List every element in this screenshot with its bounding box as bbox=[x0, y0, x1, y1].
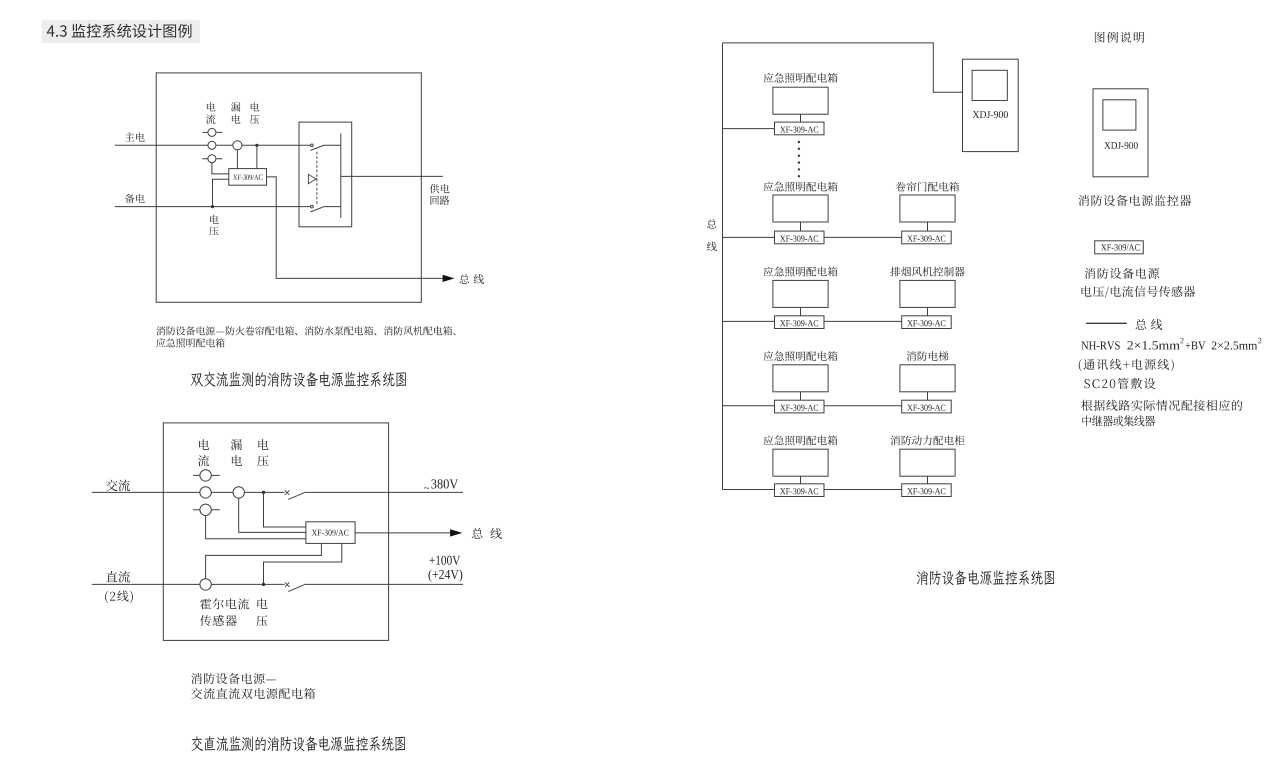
sensor box XF1 bbox=[229, 169, 267, 186]
sensor box XF-309-AC A row1 bbox=[775, 122, 825, 135]
wire bus to XF A row5 bbox=[723, 489, 775, 491]
wire bus vertical bbox=[722, 43, 724, 490]
node junction on 备电 bbox=[211, 205, 214, 208]
legend label 总 线 bbox=[1136, 319, 1147, 330]
label 总 线 diagram2 bbox=[472, 528, 483, 539]
panel box B row4 bbox=[900, 365, 955, 392]
wire 直流 line right bbox=[305, 583, 463, 585]
wire tick top d2 bbox=[193, 474, 220, 476]
label +100V bbox=[430, 556, 461, 565]
wire XF1 to 备电 bbox=[213, 179, 229, 206]
label 压 d2v bbox=[256, 615, 267, 626]
sensor box XF-309-AC A row3 bbox=[775, 316, 825, 329]
label XF-309-AC A row4 bbox=[780, 405, 818, 411]
label 排烟风机控制器 row3 bbox=[890, 267, 964, 277]
caption diagram1 line1 bbox=[156, 326, 455, 335]
label XDJ-900 middle bbox=[973, 111, 1008, 118]
wire 直流 line left bbox=[92, 583, 285, 585]
switch blade backup bbox=[311, 207, 324, 212]
wire node to XF1 bbox=[256, 145, 258, 168]
arrow bus output d2 bbox=[450, 529, 462, 536]
wire XF1 to bus bbox=[267, 177, 444, 279]
legend sensor box bbox=[1095, 241, 1144, 254]
label XF-309/AC on XF1 bbox=[233, 175, 262, 180]
sensor box XF-309-AC B row4 bbox=[902, 400, 952, 413]
sensor box XF2 bbox=[306, 522, 355, 544]
wire bus to XF A row2 bbox=[723, 236, 775, 238]
label 交流 bbox=[106, 480, 130, 492]
sensor CT1 d2 bbox=[200, 470, 211, 481]
label 总 线 diagram1 bbox=[459, 274, 469, 284]
wire boxA-XF row5 bbox=[800, 476, 802, 484]
sensor CT2 current bbox=[208, 141, 216, 149]
sensor box XF-309-AC B row2 bbox=[902, 231, 952, 244]
sensor CT1 current bbox=[208, 128, 216, 136]
wire XF2 to DC node bbox=[264, 543, 342, 584]
switch cross DC bbox=[285, 582, 290, 587]
wire XF A to XF B row4 bbox=[824, 405, 902, 407]
legend heading 图例说明 bbox=[1095, 32, 1144, 43]
label 电压 d2col3 bbox=[258, 439, 268, 450]
wire boxA-XF row2 bbox=[800, 222, 802, 231]
wire XF2 to bus bbox=[355, 532, 450, 534]
label XF-309-AC B row5 bbox=[907, 488, 945, 494]
switch blade AC bbox=[288, 493, 304, 500]
wire output bar bbox=[340, 133, 342, 218]
sensor leakage d2 bbox=[233, 487, 244, 498]
legend monitor box bbox=[1093, 89, 1148, 177]
label 线 vertical bbox=[707, 242, 717, 252]
caption diagram1 title bbox=[191, 372, 407, 387]
wire CT3 to XF1 bbox=[212, 163, 229, 174]
wire 交流 line left bbox=[92, 491, 285, 493]
panel box A row5 bbox=[773, 449, 828, 476]
label XF-309-AC B row2 bbox=[907, 236, 945, 242]
contact circle backup bbox=[311, 205, 314, 208]
legend text (通讯线+电源线) bbox=[1079, 359, 1174, 372]
caption diagram1 line2 bbox=[156, 338, 225, 347]
panel box A row4 bbox=[773, 365, 828, 392]
label 回路 bbox=[431, 196, 450, 205]
wire leakage to XF1 bbox=[236, 150, 238, 169]
sensor CT3 d2 bbox=[200, 504, 211, 515]
switch cross AC bbox=[285, 490, 290, 495]
node junction AC bbox=[262, 491, 265, 494]
legend text 消防设备电源 bbox=[1085, 268, 1160, 279]
label 电流 column1 bbox=[207, 102, 216, 111]
wire node to XF2 bbox=[264, 492, 306, 527]
label 应急照明配电箱 row4 bbox=[764, 351, 838, 361]
label 直流 bbox=[106, 571, 130, 583]
label 供电 bbox=[430, 184, 450, 193]
label 应急照明配电箱 row1 bbox=[764, 73, 838, 83]
wire boxB-XF row3 bbox=[927, 307, 929, 315]
legend monitor screen bbox=[1103, 100, 1136, 130]
section title background bbox=[42, 20, 200, 43]
label 应急照明配电箱 row2 bbox=[764, 182, 838, 192]
sensor CT2 d2 bbox=[200, 487, 211, 498]
label 备电 bbox=[125, 194, 145, 203]
sensor box XF-309-AC B row5 bbox=[902, 484, 952, 497]
wire bus to XF A row1 bbox=[723, 128, 775, 130]
label XF-309-AC B row3 bbox=[907, 320, 945, 326]
label 漏电 d2col2 bbox=[231, 439, 242, 450]
label (+24V) bbox=[429, 570, 463, 582]
interlock triangle bbox=[308, 174, 316, 183]
label 电流 d2col1 bbox=[199, 439, 209, 450]
wire 交流 line right bbox=[305, 491, 463, 493]
label XF-309-AC A row1 bbox=[780, 127, 818, 133]
wire blade stub main bbox=[324, 144, 341, 146]
node junction on 主电 bbox=[255, 144, 258, 147]
legend bus line sample bbox=[1086, 322, 1127, 324]
sensor box XF-309-AC A row5 bbox=[775, 484, 825, 497]
label (2线) bbox=[105, 591, 133, 604]
label 霍尔电流 bbox=[200, 598, 249, 609]
interlock apex dot bbox=[316, 178, 318, 180]
wire bus to XF A row4 bbox=[723, 405, 775, 407]
wire XF A to XF B row3 bbox=[824, 320, 902, 322]
legend text 电压/电流信号传感器 bbox=[1082, 286, 1196, 298]
wire CT3 to XF2 bbox=[206, 516, 306, 539]
ellipsis dots continuation bbox=[798, 141, 800, 178]
caption diagram2 line1 bbox=[191, 673, 276, 684]
sensor box XF-309-AC B row3 bbox=[902, 316, 952, 329]
panel box B row3 bbox=[900, 280, 955, 307]
wire phase tick bottom bbox=[202, 158, 222, 160]
node junction DC bbox=[262, 583, 265, 586]
contact circle main bbox=[311, 144, 314, 147]
label XF-309-AC A row5 bbox=[780, 488, 818, 494]
label 漏电 column2 bbox=[231, 102, 240, 111]
panel box A row1 bbox=[773, 87, 828, 114]
label XF-309/AC legend bbox=[1101, 244, 1140, 250]
caption diagram2 line2 bbox=[191, 688, 315, 699]
label 消防动力配电柜 row5 bbox=[891, 435, 965, 445]
monitor XDJ-900 screen bbox=[972, 70, 1007, 100]
legend cable spec NH-RVS bbox=[1081, 342, 1119, 350]
label 电 d2v bbox=[257, 598, 267, 609]
wire bus to XF A row3 bbox=[723, 320, 775, 322]
label 应急照明配电箱 row5 bbox=[764, 435, 838, 445]
sensor box XF-309-AC A row4 bbox=[775, 400, 825, 413]
switch box ATS bbox=[299, 122, 352, 227]
diagram2 enclosure box bbox=[163, 423, 388, 641]
label 总 vertical bbox=[707, 219, 716, 228]
legend note line2 bbox=[1082, 415, 1155, 426]
legend text 消防设备电源监控器 bbox=[1078, 195, 1191, 206]
label XF-309-AC B row4 bbox=[907, 405, 945, 411]
label XDJ-900 legend bbox=[1104, 142, 1138, 149]
wire bus top run bbox=[723, 43, 963, 92]
legend text SC20管敷设 bbox=[1084, 378, 1155, 389]
caption diagram2 title bbox=[191, 736, 405, 751]
sensor CT3 current bbox=[208, 155, 216, 163]
panel box B row5 bbox=[900, 449, 955, 476]
label XF-309-AC A row2 bbox=[780, 236, 818, 242]
diagram1 enclosure box bbox=[156, 73, 421, 302]
wire boxB-XF row5 bbox=[927, 476, 929, 484]
panel box B row2 bbox=[900, 195, 955, 222]
wire boxB-XF row4 bbox=[927, 392, 929, 400]
wire XF A to XF B row2 bbox=[824, 236, 902, 238]
wire supply output bbox=[341, 175, 443, 177]
caption middle riser bbox=[917, 570, 1054, 585]
label 卷帘门配电箱 row2 bbox=[896, 182, 959, 192]
section title 4.3 监控系统设计图例 bbox=[47, 24, 192, 38]
label 消防电梯 row4 bbox=[907, 351, 949, 361]
label XF-309-AC A row3 bbox=[780, 320, 818, 326]
wire boxA-XF row3 bbox=[800, 307, 802, 315]
arrow bus output bbox=[443, 275, 455, 282]
wire boxA-XF row4 bbox=[800, 392, 802, 400]
panel box A row2 bbox=[773, 195, 828, 222]
wire tick bottom d2 bbox=[193, 509, 220, 511]
monitor XDJ-900 box bbox=[963, 59, 1019, 151]
wire 主电 line bbox=[115, 144, 311, 146]
dashed interlock link bbox=[316, 152, 318, 205]
label 应急照明配电箱 row3 bbox=[764, 267, 838, 277]
wire XF2 to hall sensor bbox=[206, 543, 322, 578]
wire boxB-XF row2 bbox=[927, 222, 929, 231]
switch blade DC bbox=[288, 585, 304, 592]
wire XF A to XF B row5 bbox=[824, 489, 902, 491]
label 电压 below 备电 bbox=[210, 215, 219, 224]
label XF-309/AC on XF2 bbox=[312, 530, 349, 536]
sensor box XF-309-AC A row2 bbox=[775, 231, 825, 244]
sensor hall bbox=[200, 579, 211, 590]
wire boxA-XF row1 bbox=[800, 114, 802, 122]
panel box A row3 bbox=[773, 280, 828, 307]
label ~380V bbox=[424, 487, 429, 489]
label 电压 column3 bbox=[251, 102, 260, 111]
switch blade main bbox=[311, 145, 324, 150]
wire 备电 line bbox=[115, 206, 311, 208]
wire blade stub backup bbox=[324, 206, 341, 208]
label 主电 bbox=[125, 132, 145, 141]
label 传感器 bbox=[200, 615, 237, 626]
sensor leakage bbox=[233, 141, 242, 150]
wire leakage to XF2 bbox=[239, 498, 306, 532]
wire phase tick top bbox=[202, 131, 222, 133]
legend note line1 bbox=[1081, 400, 1242, 411]
